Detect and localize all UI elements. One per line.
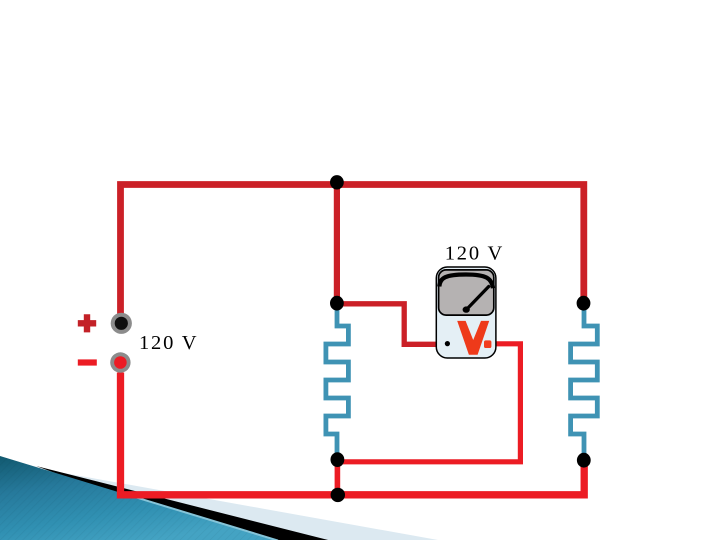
voltmeter U1 body: [436, 267, 496, 358]
plus sign: [78, 314, 96, 332]
voltmeter V symbol: [457, 321, 489, 355]
node top middle: [330, 175, 344, 189]
wire voltmeter left lead: [337, 304, 446, 345]
node R2 bottom: [577, 453, 591, 468]
node bottom middle: [331, 488, 345, 502]
resistor R2: [571, 304, 598, 462]
wire voltmeter right lead: [337, 344, 520, 462]
svg-text:120 V: 120 V: [445, 243, 503, 265]
svg-text:120 V: 120 V: [139, 332, 197, 354]
wire middle branch bottom: [335, 460, 341, 495]
node R1 bottom: [331, 452, 345, 467]
battery terminal positive: [111, 313, 132, 334]
voltmeter gauge arc: [439, 275, 493, 289]
resistor R1: [326, 304, 349, 460]
node middle junction: [330, 296, 344, 311]
battery terminal negative: [110, 352, 130, 372]
wire top loop: [121, 185, 584, 314]
wire middle branch top: [334, 185, 340, 304]
wire bottom loop: [121, 373, 585, 495]
voltmeter terminal left: [445, 341, 450, 346]
voltmeter needle: [467, 287, 489, 310]
node right upper: [577, 296, 591, 311]
voltmeter terminal right: [484, 340, 491, 348]
minus sign: [78, 359, 97, 365]
voltmeter display: [439, 270, 494, 315]
